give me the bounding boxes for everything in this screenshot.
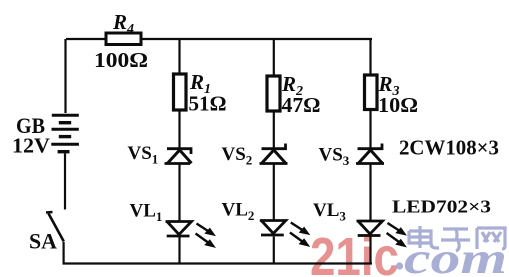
label VS2	[222, 144, 253, 168]
label VS3	[319, 145, 350, 169]
svg-text:LED702×3: LED702×3	[392, 197, 491, 217]
label 10ohm	[378, 93, 418, 117]
LED VL1	[166, 222, 215, 248]
label R4	[112, 10, 134, 37]
label 100ohm	[94, 48, 148, 72]
hanzi wang	[477, 228, 505, 249]
svg-text:21ic: 21ic	[310, 227, 399, 277]
label R2	[281, 72, 303, 99]
zener diode VS1	[165, 149, 192, 164]
wire left rail top	[64, 39, 66, 113]
wire top rail	[66, 38, 372, 40]
zener diode VS3	[356, 144, 384, 164]
battery GB	[51, 115, 79, 152]
label VL2	[222, 200, 255, 224]
svg-text:2CW108×3: 2CW108×3	[399, 136, 499, 160]
svg-text:SA: SA	[29, 229, 57, 254]
label VL1	[130, 201, 163, 225]
watermark 21ic.com dianziwang	[310, 226, 507, 277]
label R1	[189, 70, 211, 97]
svg-text:10Ω: 10Ω	[378, 93, 418, 117]
resistor R2	[267, 76, 280, 111]
label 2CW108x3	[399, 136, 499, 160]
resistor R4	[106, 33, 141, 45]
svg-text:12V: 12V	[12, 134, 50, 158]
wire branch 2	[273, 39, 275, 264]
svg-text:VS2: VS2	[222, 144, 253, 168]
svg-text:VS1: VS1	[128, 143, 159, 167]
label 51ohm	[189, 92, 227, 116]
label GB	[16, 113, 45, 138]
svg-text:VL3: VL3	[313, 200, 346, 224]
svg-text:100Ω: 100Ω	[94, 48, 148, 72]
svg-text:VS3: VS3	[319, 145, 350, 169]
zener diode VS2	[260, 144, 288, 164]
svg-text:VL1: VL1	[130, 201, 163, 225]
label 12V	[12, 134, 50, 158]
label VL3	[313, 200, 346, 224]
label 47ohm	[282, 93, 321, 117]
wire bottom rail	[63, 262, 373, 264]
svg-text:51Ω: 51Ω	[189, 92, 227, 116]
switch SA	[46, 212, 64, 242]
wire switch to bottom rail	[62, 242, 64, 264]
label LED702x3	[392, 197, 491, 217]
wire branch 3	[369, 39, 371, 264]
wire battery to switch	[64, 154, 66, 210]
LED VL3	[357, 221, 406, 247]
hanzi dian	[409, 226, 439, 248]
label VS1	[128, 143, 159, 167]
resistor R3	[365, 75, 378, 110]
svg-text:VL2: VL2	[222, 200, 255, 224]
svg-text:R4: R4	[112, 10, 134, 37]
label R3	[378, 72, 400, 99]
wire branch 1	[178, 39, 180, 264]
svg-text:47Ω: 47Ω	[282, 93, 321, 117]
label SA	[29, 229, 57, 254]
resistor R1	[174, 74, 187, 110]
LED VL2	[260, 221, 309, 247]
hanzi zi	[441, 229, 470, 251]
